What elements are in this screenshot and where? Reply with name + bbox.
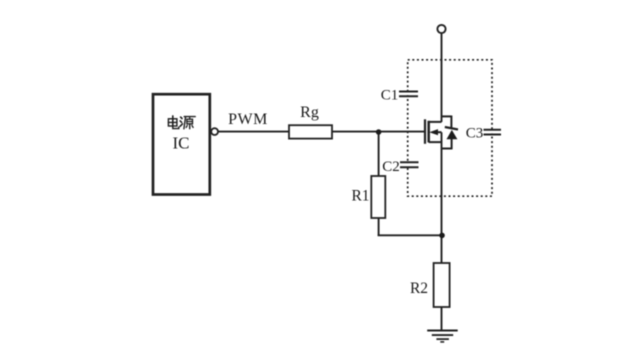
svg-text:R1: R1 bbox=[351, 188, 369, 205]
svg-text:C1: C1 bbox=[381, 88, 399, 104]
svg-text:Rg: Rg bbox=[300, 104, 319, 121]
svg-text:C3: C3 bbox=[466, 126, 484, 142]
svg-text:C2: C2 bbox=[382, 159, 400, 175]
svg-text:IC: IC bbox=[173, 133, 190, 152]
svg-text:R2: R2 bbox=[410, 280, 428, 297]
svg-text:PWM: PWM bbox=[228, 111, 268, 128]
